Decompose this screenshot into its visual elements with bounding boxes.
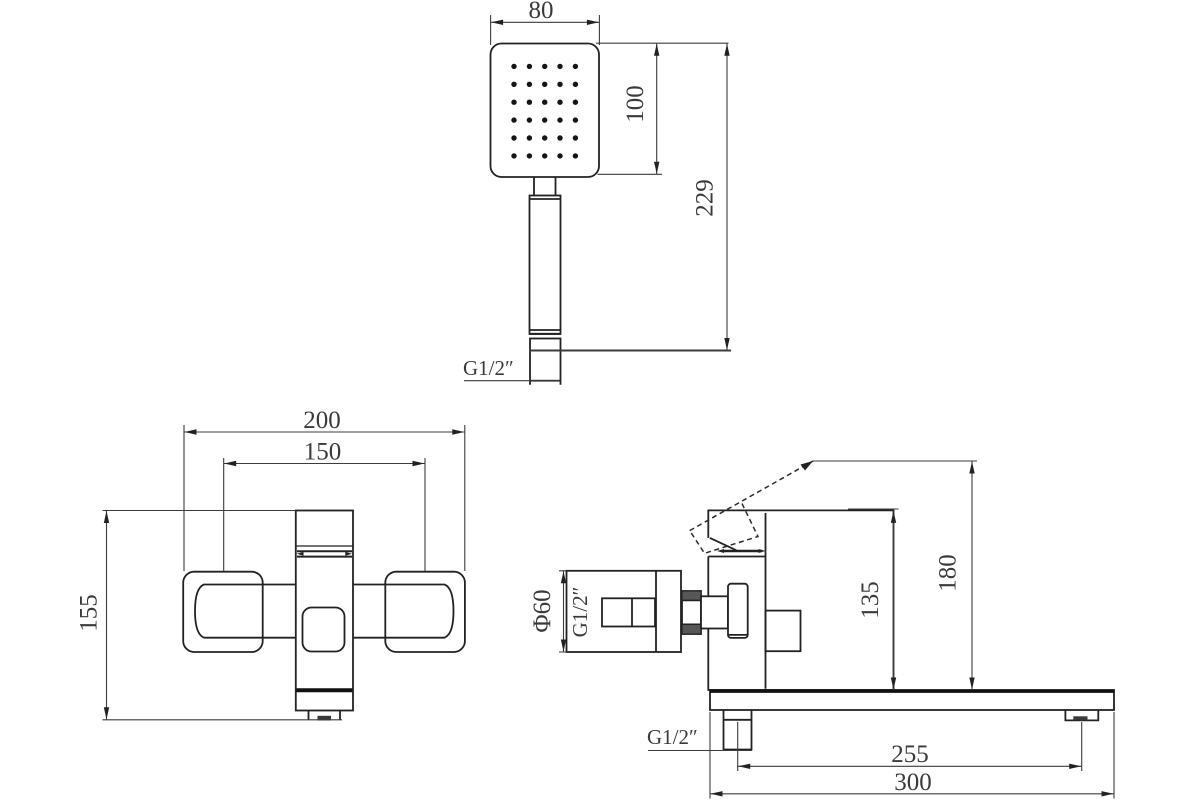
svg-text:155: 155: [76, 594, 103, 632]
front view: diverter rounded square: [303, 608, 345, 652]
svg-text:200: 200: [303, 407, 341, 434]
dim 80: dimension line: [491, 21, 600, 23]
dim 180: dimension line: [971, 461, 973, 690]
svg-text:300: 300: [894, 769, 932, 796]
front view: mixer body column: [296, 511, 353, 711]
dim 155: top extension line: [103, 510, 296, 512]
svg-text:150: 150: [304, 439, 342, 466]
dim 180: top extension line: [813, 460, 977, 462]
side view: connection pipe into body: [701, 596, 728, 628]
side view: cartridge joint lines: [722, 550, 762, 553]
side view: hex nut: [682, 591, 701, 634]
front view: dark band: [297, 688, 353, 692]
dim 135: dimension line: [893, 510, 895, 690]
svg-text:G1/2″: G1/2″: [647, 725, 698, 749]
hand shower: handle collar line: [530, 198, 561, 200]
svg-text:80: 80: [529, 0, 554, 24]
dim 255: extension lines: [738, 722, 1082, 771]
hand shower: head outline: [491, 44, 600, 178]
dim phi60: dimension line: [563, 571, 565, 652]
dim 80: extension lines: [491, 15, 600, 45]
side view: inner outlet rectangle: [766, 611, 801, 652]
side view: inlet pipe divider: [631, 598, 633, 626]
side view: lever base diagonal: [710, 538, 737, 550]
dim 255: dimension line: [738, 765, 1082, 767]
front view: body cap seam line: [296, 545, 353, 547]
G1/2 leader line (hand shower): [464, 380, 560, 382]
dim 300: dimension line: [710, 793, 1114, 795]
dim 100: dimension line: [656, 43, 658, 174]
side view: left under-deck flange: [724, 710, 752, 751]
hand shower: bottom connector: [530, 339, 561, 381]
dim 200: dimension line: [184, 431, 465, 433]
dim 229: bottom extension line: [531, 350, 731, 352]
dim 300: extension lines: [710, 712, 1114, 799]
dim 100: top extension line: [596, 42, 729, 44]
front view: left wall escutcheon plate: [183, 572, 263, 652]
G1/2 leader line (deck inlet): [648, 750, 752, 752]
side view: body inner vertical line: [765, 513, 767, 689]
side view: escutcheon face line: [655, 571, 657, 652]
svg-text:135: 135: [857, 581, 884, 619]
svg-text:229: 229: [692, 179, 719, 217]
side view: right under-deck fitting: [1065, 710, 1098, 721]
svg-text:180: 180: [935, 554, 962, 592]
side view: check valve housing: [728, 584, 748, 638]
side view: G1/2 inlet pipe stub: [602, 598, 655, 626]
side view: dashed arm arrowhead: [801, 461, 814, 471]
svg-text:Φ60: Φ60: [529, 589, 556, 632]
front view: body joint lines: [297, 550, 352, 552]
side view: lever dashed arm: [690, 461, 813, 553]
hand shower: handle tube: [530, 196, 561, 335]
dim 150: dimension line: [224, 463, 425, 465]
side view: right fitting dark insert: [1073, 716, 1087, 720]
front view: body bottom aerator nub: [309, 711, 341, 721]
side view: deck shelf: [710, 690, 1114, 710]
dim 155: bottom extension line: [103, 719, 343, 721]
svg-text:G1/2″: G1/2″: [463, 356, 514, 380]
front view: left connector bar: [195, 585, 296, 638]
dim 155: dimension line: [106, 511, 108, 720]
dim 135: top extension line: [848, 508, 899, 510]
front view: right wall escutcheon plate: [385, 572, 465, 652]
hand shower: handle lower rings: [530, 330, 561, 334]
svg-text:100: 100: [622, 85, 649, 123]
dim 200: extension lines: [184, 425, 465, 571]
side view: mixer body block: [708, 510, 893, 690]
hand shower: neck: [534, 177, 556, 195]
front view: aerator dark insert: [318, 716, 332, 721]
side view: wall escutcheon (side): [567, 571, 682, 652]
dim phi60: extension ticks: [559, 571, 567, 652]
hand shower: spray nozzle dots: [511, 64, 578, 159]
side view: lever dashed knob: [690, 504, 758, 554]
svg-text:G1/2″: G1/2″: [568, 587, 592, 638]
dim 229: dimension line: [726, 43, 728, 350]
dim 150: extension lines: [224, 458, 425, 571]
svg-text:255: 255: [891, 741, 929, 768]
front view: right connector bar: [353, 585, 454, 638]
dim 100: bottom extension line: [598, 173, 663, 175]
